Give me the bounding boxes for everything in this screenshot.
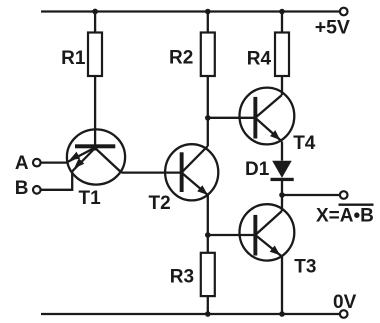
terminal 0V: [333, 292, 357, 318]
node T3 base branch: [205, 232, 211, 238]
transistor T3: [240, 204, 317, 278]
terminal +5V: [315, 8, 350, 39]
diode D1: [245, 159, 294, 181]
svg-text:D1: D1: [245, 159, 270, 180]
resistor R2: [169, 33, 215, 77]
wire 0V bottom rail: [41, 313, 340, 315]
wire +5V top rail: [41, 10, 340, 12]
wire node to T4 base: [208, 117, 256, 119]
svg-text:T2: T2: [149, 193, 171, 214]
transistor T4: [240, 88, 316, 154]
svg-text:0V: 0V: [333, 292, 357, 313]
wire T1 collector to T2 base: [122, 171, 182, 173]
node T3 emitter/bottom rail: [279, 311, 285, 317]
svg-text:R1: R1: [61, 48, 86, 69]
svg-text:X=A•B: X=A•B: [316, 206, 374, 227]
resistor R3: [170, 253, 215, 296]
wire R4 top stem: [281, 12, 283, 33]
node R4/top rail: [279, 9, 285, 15]
wire R1 to T1 base: [94, 76, 96, 151]
svg-text:R2: R2: [169, 47, 193, 68]
svg-text:B: B: [15, 178, 29, 199]
svg-text:R3: R3: [170, 267, 194, 288]
input terminal B: [15, 178, 41, 199]
node output/D1: [279, 192, 285, 198]
resistor R4: [247, 33, 289, 77]
wire T3 emitter to 0V rail: [281, 257, 283, 315]
node R1/top rail: [92, 9, 98, 15]
resistor R1: [61, 33, 102, 77]
wire node to T3 base: [208, 234, 256, 236]
svg-text:R4: R4: [247, 48, 272, 69]
wire T4 emitter to D1: [281, 142, 283, 161]
node R3/bottom rail: [205, 311, 211, 317]
wire R3 to 0V rail: [207, 296, 209, 314]
wire output node to T3 collector: [281, 195, 283, 211]
wire R2 top stem: [207, 12, 209, 33]
svg-text:T3: T3: [294, 257, 316, 278]
node R2/top rail: [205, 9, 211, 15]
node T4 base branch: [205, 115, 211, 121]
svg-text:+5V: +5V: [315, 17, 350, 39]
svg-text:T4: T4: [293, 133, 316, 154]
wire output node to X terminal: [282, 194, 340, 196]
wire R1 top stem: [94, 12, 96, 33]
wire R2 to T2 collector: [207, 76, 209, 146]
wire R4 to T4 collector: [281, 76, 283, 95]
input terminal A: [15, 153, 41, 174]
transistor T1 (multi-emitter): [67, 129, 125, 209]
output terminal X: [316, 191, 374, 227]
svg-text:A: A: [15, 153, 29, 174]
svg-text:T1: T1: [79, 188, 102, 209]
wire D1 to output node: [281, 181, 283, 195]
wire A input to T1 emitter: [41, 161, 68, 163]
wire T2 emitter to R3: [207, 194, 209, 253]
transistor T2: [149, 144, 219, 214]
wire B input to T1 emitter: [41, 171, 72, 190]
